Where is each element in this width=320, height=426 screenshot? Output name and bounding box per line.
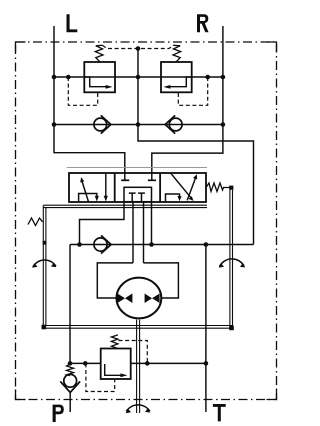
center inner blocked port right xyxy=(138,193,145,201)
node relief drain junction xyxy=(145,361,150,366)
right section diagonal up arrow xyxy=(187,178,195,201)
node center-checkline junction xyxy=(136,122,141,127)
relief valve right body xyxy=(161,62,192,92)
port label L xyxy=(67,14,78,32)
node L-checkline junction xyxy=(52,122,57,127)
directional valve body xyxy=(69,173,206,202)
port label R xyxy=(197,14,209,32)
inlet check valve seat xyxy=(60,381,80,392)
check valve right top (circle and seat) xyxy=(169,118,182,131)
main relief pilot bottom loop (dashed) xyxy=(86,363,115,391)
inlet check spring xyxy=(67,364,74,376)
valve section divider left xyxy=(114,173,116,202)
right section port box xyxy=(166,194,180,202)
inlet check valve circle xyxy=(64,374,77,387)
wire check line lower xyxy=(70,244,254,246)
under-valve linkage pair xyxy=(43,205,207,207)
main relief spring xyxy=(111,335,118,348)
wire relief cross line xyxy=(54,76,223,78)
relief valve right spring xyxy=(173,45,181,62)
linkage corner square right xyxy=(229,326,234,331)
node left pilot tap xyxy=(66,75,71,80)
wire T riser xyxy=(205,245,207,413)
relief valve left body xyxy=(84,62,115,92)
node right pilot tap xyxy=(205,75,210,80)
right linkage shaft pair xyxy=(230,190,233,327)
relief valve left internal arrow xyxy=(84,77,108,87)
rotation arrow right xyxy=(220,259,245,267)
main relief internal arrow xyxy=(105,364,123,375)
valve right spring xyxy=(206,183,230,192)
center section port bar right xyxy=(148,179,156,181)
linkage anchor dot left xyxy=(43,241,47,245)
valve port line D (to check line) xyxy=(151,202,153,245)
center inner blocked port left xyxy=(129,193,136,201)
spring anchor square xyxy=(229,186,233,190)
rotation arrow left xyxy=(33,260,56,267)
left section down arrow xyxy=(105,173,107,197)
relief valve left spring xyxy=(95,45,103,62)
rotation arrow bottom xyxy=(126,405,150,411)
port label T xyxy=(213,404,226,421)
main relief valve body xyxy=(101,349,131,380)
relief valve left pilot line xyxy=(68,77,97,105)
node L-relief junction xyxy=(52,75,57,80)
center section port bar left xyxy=(121,179,129,181)
check valve lower (circle and seat) xyxy=(94,238,107,251)
pilot spring-top dashed line xyxy=(102,45,173,48)
wire tank/center line xyxy=(138,48,254,245)
left section port box xyxy=(79,194,97,202)
relief valve right pilot line xyxy=(178,77,207,105)
enclosure dash-dot border xyxy=(16,42,277,400)
valve port line A (to tank loop) xyxy=(80,202,125,245)
wire P riser xyxy=(69,245,71,364)
motor bowtie left xyxy=(117,294,125,304)
node P branch junction xyxy=(68,361,73,366)
port line L xyxy=(54,26,125,180)
linkage centering spring W xyxy=(28,218,43,226)
node R-checkline junction xyxy=(221,122,226,127)
valve port line C (motor right) xyxy=(143,202,145,263)
right section diagonal crossing arrow xyxy=(170,173,191,199)
port line R xyxy=(152,26,223,180)
spool guide thin line xyxy=(67,167,207,169)
center section inner box xyxy=(124,187,152,201)
linkage corner square left xyxy=(42,325,47,330)
motor shaft pair xyxy=(137,320,140,413)
valve section divider right xyxy=(159,173,161,202)
motor feed loop xyxy=(97,263,178,298)
left linkage shaft pair xyxy=(43,205,46,325)
node R-relief junction xyxy=(221,75,226,80)
valve port line B (motor left) xyxy=(132,202,134,263)
wire relief outlet xyxy=(131,362,206,364)
node relief outlet T junction xyxy=(204,361,209,366)
check valve left top (circle and seat) xyxy=(94,118,107,131)
node pilot top junction xyxy=(136,46,141,51)
left section diagonal arrow xyxy=(82,181,89,202)
node check-line left junction xyxy=(77,242,82,247)
wire relief inlet xyxy=(70,362,101,364)
node relief inlet junction xyxy=(83,361,88,366)
relief valve right internal arrow xyxy=(168,77,192,87)
main relief pilot to tank (dashed) xyxy=(119,341,148,364)
node check-line mid junction xyxy=(149,242,154,247)
node check-line T junction xyxy=(204,242,209,247)
metering motor circle xyxy=(116,278,161,319)
wire check line top xyxy=(54,124,223,126)
motor bowtie right xyxy=(145,294,152,304)
node center-relief junction xyxy=(136,75,141,80)
long linkage pair bottom xyxy=(43,326,232,329)
wire P port xyxy=(69,393,71,413)
port label P xyxy=(53,405,64,422)
